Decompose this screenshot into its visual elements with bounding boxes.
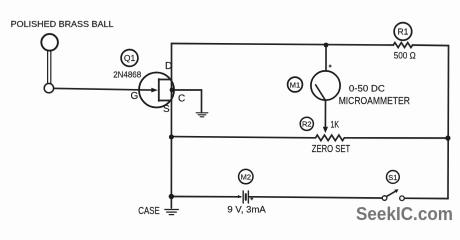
svg-text:500 Ω: 500 Ω xyxy=(394,50,416,60)
svg-text:S: S xyxy=(163,104,170,115)
svg-text:Q1: Q1 xyxy=(124,53,136,63)
svg-text:SeekIC.com: SeekIC.com xyxy=(356,204,453,224)
svg-text:R1: R1 xyxy=(397,27,408,37)
svg-text:9 V, 3mA: 9 V, 3mA xyxy=(227,205,265,215)
svg-text:R2: R2 xyxy=(302,120,312,129)
svg-text:1K: 1K xyxy=(330,120,339,131)
svg-text:M2: M2 xyxy=(241,173,251,182)
svg-text:MICROAMMETER: MICROAMMETER xyxy=(339,95,411,107)
svg-text:ZERO SET: ZERO SET xyxy=(312,144,350,155)
svg-text:2N4868: 2N4868 xyxy=(113,70,141,80)
svg-text:CASE: CASE xyxy=(138,206,160,217)
svg-text:POLISHED BRASS BALL: POLISHED BRASS BALL xyxy=(11,20,115,29)
svg-text:S1: S1 xyxy=(388,173,397,182)
svg-text:C: C xyxy=(178,94,185,105)
svg-text:0-50 DC: 0-50 DC xyxy=(349,83,385,94)
svg-text:D: D xyxy=(165,61,172,72)
svg-text:G: G xyxy=(131,91,139,102)
svg-text:M1: M1 xyxy=(290,80,300,89)
